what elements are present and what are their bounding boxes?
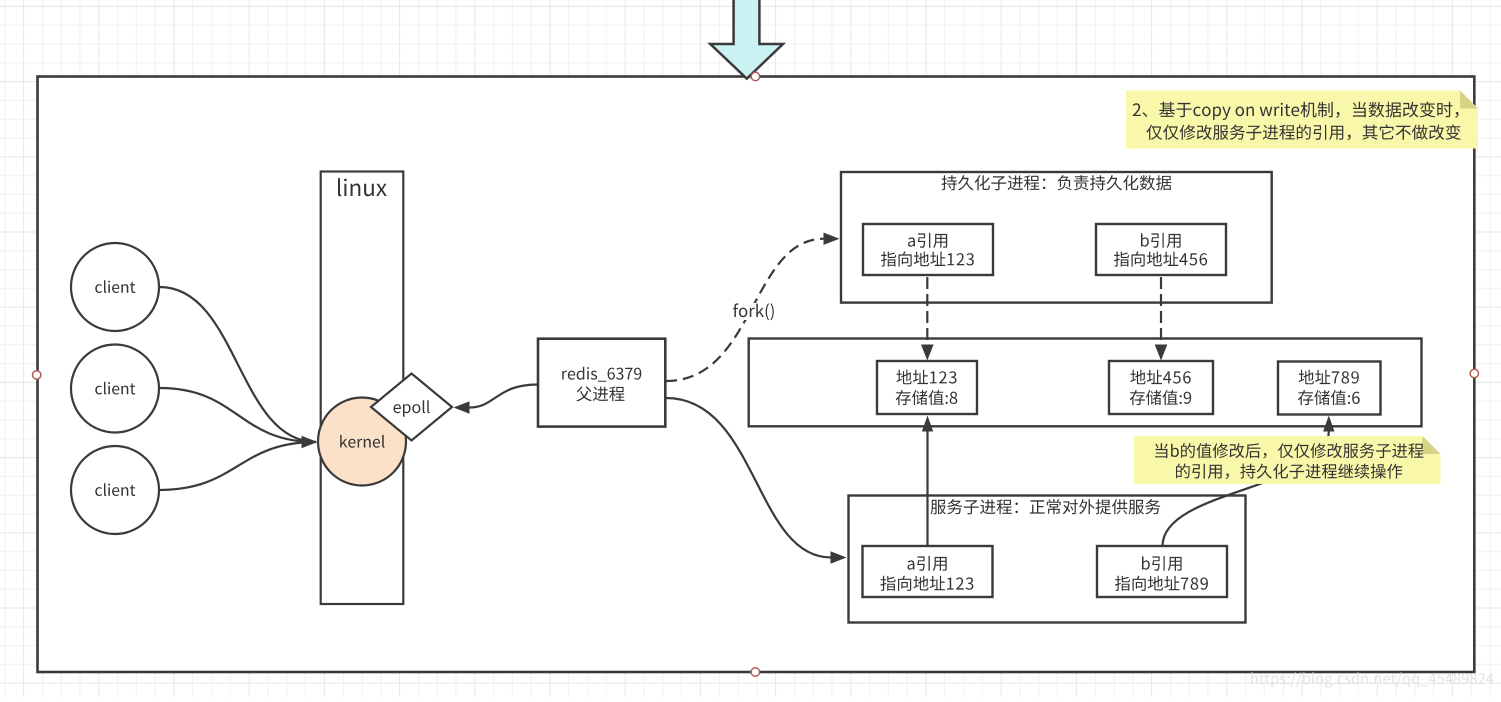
wire client1 to kernel <box>160 287 317 442</box>
selection handle <box>751 668 759 676</box>
yellow note 1 <box>1126 91 1478 149</box>
client circle 1 <box>71 243 159 331</box>
wire redis to epoll <box>469 385 538 408</box>
arrowhead up into addr789 <box>1323 416 1334 432</box>
wire service a-ref to addr123 <box>926 431 928 546</box>
yellow note 2 <box>1134 436 1441 484</box>
memory box <box>749 339 1422 427</box>
dashed fork() wire redis to top box <box>666 239 824 381</box>
arrowhead down <box>1155 345 1168 361</box>
service process box <box>849 496 1246 623</box>
wire client2 to kernel <box>160 388 317 442</box>
wire redis to bottom box <box>666 398 831 558</box>
epoll diamond <box>371 374 452 441</box>
client circle 3 <box>71 446 159 534</box>
arrowhead into top box <box>824 233 840 245</box>
wire service b-ref to addr789 <box>1163 432 1329 547</box>
arrowhead into bottom box <box>831 551 847 563</box>
a-ref box (service) <box>863 546 993 597</box>
arrowhead down <box>921 345 934 361</box>
addr456 box <box>1109 361 1213 414</box>
b-ref box (service) <box>1097 546 1227 597</box>
addr123 box <box>877 361 977 414</box>
arrowhead into kernel <box>302 436 318 448</box>
persist process box <box>841 172 1272 303</box>
arrowhead into epoll <box>454 401 470 413</box>
a-ref box (persist) <box>863 224 993 275</box>
client circle 2 <box>71 345 159 433</box>
selection handle <box>751 72 759 80</box>
selection handle <box>1470 369 1478 377</box>
fork() label <box>731 303 777 320</box>
cyan down arrow <box>710 0 783 79</box>
b-ref box (persist) <box>1096 224 1226 275</box>
linux rectangle <box>321 172 404 605</box>
wire client3 to kernel <box>159 442 317 490</box>
selection handle <box>33 371 41 379</box>
dashed wire ref to address <box>926 277 928 345</box>
addr789 box <box>1278 362 1381 415</box>
dashed wire ref to address <box>1160 277 1162 345</box>
kernel circle <box>318 398 406 486</box>
redis_6379 box <box>538 339 665 427</box>
arrowhead up into addr123 <box>922 416 933 432</box>
watermark <box>1251 672 1493 688</box>
